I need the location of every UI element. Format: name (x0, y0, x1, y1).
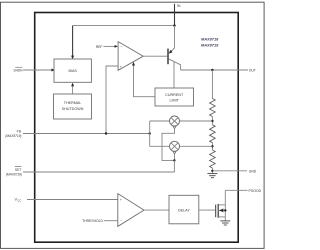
svg-text:CC: CC (17, 198, 21, 202)
node FB-switch junction (149, 132, 151, 134)
svg-text:BIAS: BIAS (68, 69, 77, 73)
delay block (169, 195, 199, 224)
node tap1 (211, 120, 213, 122)
node OUT junction (211, 69, 213, 71)
REF label (96, 45, 118, 49)
svg-text:SET: SET (15, 168, 22, 172)
svg-text:OUT: OUT (249, 69, 256, 73)
node FB-feedback junction (105, 132, 107, 134)
wire thermal shutdown to BIAS (71, 83, 74, 94)
wire delay to gate (199, 209, 216, 211)
wire into BIAS top (71, 26, 74, 60)
node A (IN junction) (173, 24, 175, 26)
svg-text:CURRENT: CURRENT (165, 93, 184, 97)
THRESHOLD label (82, 219, 118, 223)
node tap2 (211, 145, 213, 147)
part numbers (201, 37, 219, 48)
ground (MOSFET source) (220, 221, 230, 225)
current limit block (155, 88, 194, 106)
ground (resistor chain) (207, 174, 217, 178)
wire OUT line (181, 69, 248, 71)
svg-text:(MAX8718): (MAX8718) (6, 173, 22, 177)
pass transistor Q1 (PNP) (143, 26, 180, 88)
resistor R1 (210, 70, 216, 125)
wire S1 control path (162, 129, 175, 161)
pin VCC (15, 198, 118, 203)
wire S2 control to SET node (174, 154, 176, 160)
thermal shutdown block (54, 94, 92, 119)
comparator U2 (118, 194, 144, 227)
bias block (54, 59, 91, 82)
pin FB (5, 130, 149, 138)
switch S1 (150, 116, 180, 129)
svg-text:DELAY: DELAY (178, 209, 190, 213)
resistor R2 (210, 125, 216, 150)
wire top rail from BIAS to IN node (73, 25, 175, 27)
pin SET (6, 167, 175, 177)
svg-text:+: + (120, 65, 122, 69)
node GND junction (211, 170, 213, 172)
svg-text:PGOOD: PGOOD (249, 189, 262, 193)
wire comparator to delay (144, 209, 169, 211)
wire switch input bus (149, 121, 151, 146)
svg-text:LIMIT: LIMIT (169, 99, 179, 103)
node body junction (224, 209, 226, 211)
wire PGOOD line (225, 189, 247, 191)
svg-text:SHDN: SHDN (13, 68, 23, 72)
svg-text:REF: REF (96, 45, 103, 49)
wire control to SET line (173, 160, 175, 172)
svg-text:THERMAL: THERMAL (64, 101, 82, 105)
switch S2 (150, 141, 180, 154)
transistor Q2 (N-channel MOSFET) (216, 190, 226, 221)
svg-text:+: + (120, 198, 122, 202)
wire S2 output to tap2 (180, 145, 213, 147)
svg-text:MAX8718: MAX8718 (201, 37, 219, 42)
IC boundary (35, 13, 239, 243)
wire GND line (212, 170, 247, 172)
svg-text:SHUTDOWN: SHUTDOWN (62, 107, 84, 111)
op-amp U1 error amplifier (118, 42, 143, 71)
svg-text:GND: GND (249, 169, 257, 173)
svg-text:IN: IN (177, 4, 181, 8)
wire op-amp + input to FB line (106, 66, 118, 134)
pin IN (175, 4, 181, 26)
svg-text:FB: FB (17, 130, 22, 134)
svg-text:−: − (120, 219, 122, 223)
resistor R3 (210, 150, 216, 173)
svg-text:THRESHOLD: THRESHOLD (82, 219, 103, 223)
pin SHDN (13, 67, 55, 72)
svg-text:MAX8719: MAX8719 (201, 43, 219, 48)
svg-text:(MAX8719): (MAX8719) (5, 134, 21, 138)
wire S1 output to tap1 (180, 120, 213, 122)
wire current limit to op-amp (132, 62, 155, 97)
svg-text:−: − (120, 45, 122, 49)
node control junction (173, 159, 175, 161)
